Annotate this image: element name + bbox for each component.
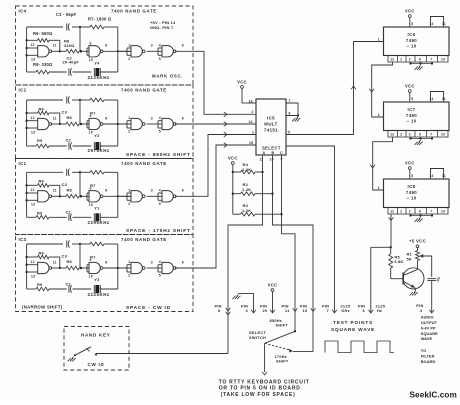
svg-text:12: 12: [31, 43, 35, 47]
svg-text:11: 11: [53, 44, 57, 48]
wire crystal to riser (IC2): [100, 145, 118, 147]
resistor R8 (IC3): [66, 266, 82, 270]
svg-text:10: 10: [89, 203, 93, 207]
wire IC6 pin12 to IC7 pin 1: [372, 62, 393, 117]
svg-text:6: 6: [182, 189, 184, 193]
svg-text:10: 10: [303, 308, 308, 313]
svg-text:SPACE - CW ID: SPACE - CW ID: [126, 305, 171, 311]
svg-text:14: 14: [249, 120, 253, 124]
NAND gate 4 pins 4,5-6 (IC4): [147, 43, 184, 61]
resistor R6 (IC1): [27, 184, 61, 198]
svg-text:13: 13: [31, 58, 35, 62]
svg-text:VCC: VCC: [268, 283, 278, 288]
svg-text:VCC: VCC: [405, 83, 415, 88]
svg-text:IC8: IC8: [408, 184, 416, 189]
wire select C from IC5 pin 9: [282, 155, 296, 331]
svg-text:7400 NAND GATE: 7400 NAND GATE: [121, 88, 167, 93]
wire IC5 pin 6 to test point PIN 7: [286, 146, 335, 313]
svg-text:KHz: KHz: [342, 308, 350, 313]
trimmer capacitor C2 (IC1): [69, 214, 72, 221]
svg-text:13: 13: [31, 274, 35, 278]
test point PIN 7 arrow: [332, 310, 337, 313]
svg-text:7490: 7490: [406, 190, 417, 195]
svg-text:2125KHz: 2125KHz: [88, 75, 110, 80]
svg-text:R8: R8: [67, 259, 73, 264]
svg-text:8: 8: [105, 260, 107, 264]
wire crystal to riser (IC3): [100, 288, 118, 290]
bottom pin row IC8: [388, 208, 448, 215]
dashed box HAND KEY: [64, 327, 129, 371]
capacitor C3 (IC2): [67, 96, 70, 103]
svg-text:6: 6: [182, 260, 184, 264]
svg-text:R9- 330Ω: R9- 330Ω: [33, 62, 53, 67]
bottom pin row IC7: [388, 131, 448, 138]
wire node80 riser (IC3): [79, 244, 81, 269]
svg-text:10: 10: [441, 58, 445, 62]
svg-text:R6- 560Ω: R6- 560Ω: [33, 31, 53, 36]
arrow down on IC7-IC8 wire: [370, 165, 375, 168]
svg-text:14: 14: [430, 174, 434, 178]
svg-text:2: 2: [128, 202, 130, 206]
svg-text:14: 14: [430, 22, 434, 26]
svg-text:IC4: IC4: [19, 9, 27, 14]
input bus wire (IC1): [25, 172, 27, 217]
svg-text:+5 VCC: +5 VCC: [409, 239, 426, 244]
capacitor C3 (IC4): [67, 23, 70, 30]
svg-text:8: 8: [105, 44, 107, 48]
wire 2125Hz from divider to test point PIN 6: [370, 247, 372, 313]
svg-text:3: 3: [151, 189, 153, 193]
switch common wire down with arrow: [264, 343, 266, 372]
svg-text:12: 12: [31, 260, 35, 264]
svg-text:11: 11: [442, 22, 446, 26]
resistor R8 (IC2): [66, 122, 82, 126]
feedback strap pins 14-11 IC7: [431, 92, 444, 103]
svg-text:11: 11: [442, 174, 446, 178]
svg-text:TO: TO: [421, 348, 426, 353]
wire feedback riser (IC2): [117, 100, 119, 146]
svg-text:10: 10: [89, 275, 93, 279]
wire IC1 output to IC5 pin 1: [175, 135, 256, 197]
svg-text:SPACE - 850Hz SHIFT: SPACE - 850Hz SHIFT: [126, 152, 191, 158]
svg-text:1: 1: [252, 130, 254, 134]
svg-text:10: 10: [441, 210, 445, 214]
wire IC2 output to IC5 pin 14: [175, 123, 256, 125]
svg-text:(TAKE LOW FOR SPACE): (TAKE LOW FOR SPACE): [221, 392, 296, 398]
svg-text:TEST POINTS: TEST POINTS: [333, 320, 373, 325]
square wave drawing: [325, 341, 394, 353]
svg-text:6.8K: 6.8K: [395, 260, 404, 264]
dashed section box IC4: [16, 6, 194, 85]
svg-text:IC3: IC3: [19, 237, 27, 242]
svg-text:7400 NAND GATE: 7400 NAND GATE: [121, 237, 167, 242]
svg-text:SQUARE WAVE: SQUARE WAVE: [331, 327, 375, 332]
svg-text:9: 9: [90, 114, 92, 118]
resistor R4 1.2K: [233, 171, 241, 173]
resistor R7 (IC3): [80, 242, 118, 246]
ground at hand key: [72, 357, 74, 359]
junction 850Hz contact: [294, 330, 296, 332]
op IC5 MULT 74151 box: [256, 99, 286, 155]
svg-text:6: 6: [182, 116, 184, 120]
svg-text:7490: 7490: [406, 113, 417, 118]
svg-text:8: 8: [105, 116, 107, 120]
svg-text:C: C: [280, 151, 283, 155]
svg-text:5: 5: [411, 22, 413, 26]
svg-text:11: 11: [53, 116, 57, 120]
svg-text:4: 4: [159, 188, 161, 192]
test point PIN 6 arrow: [368, 310, 373, 313]
resistor R8 (IC1): [66, 195, 82, 199]
wire into gate 2 (IC2): [81, 121, 89, 128]
wire top feedback path (IC2): [27, 99, 82, 101]
wire IC7 pin12 to IC8 pin 1: [373, 137, 393, 190]
svg-text:10: 10: [89, 58, 93, 62]
svg-text:20: 20: [263, 308, 268, 313]
svg-text:C3: C3: [62, 110, 68, 115]
arrow on IC2-IC5 wire: [224, 122, 227, 127]
svg-text:SHIFT: SHIFT: [276, 359, 289, 364]
wire node80 riser (IC2): [79, 100, 81, 125]
svg-text:1: 1: [378, 37, 380, 41]
resistor R7 (IC2): [80, 98, 118, 102]
trimmer capacitor C2 (IC3): [69, 285, 72, 292]
resistor R7 (IC4): [80, 25, 118, 29]
svg-text:OR TO PIN 5 ON ID BOARD: OR TO PIN 5 ON ID BOARD: [219, 386, 301, 392]
label .05 capacitor: [435, 276, 441, 283]
svg-text:IC1: IC1: [19, 161, 27, 166]
arrow down on IC8 output wire: [389, 217, 394, 220]
svg-text:1.2K: 1.2K: [242, 187, 251, 192]
wire crystal to riser (IC4): [100, 71, 118, 73]
trimmer capacitor C2 (IC4): [69, 68, 72, 75]
svg-text:7: 7: [430, 210, 432, 214]
test point PIN 20 arrow: [270, 310, 275, 313]
wire G1 out (IC2): [51, 123, 66, 125]
svg-text:12: 12: [31, 188, 35, 192]
svg-text:MARK OSC.: MARK OSC.: [152, 74, 183, 79]
svg-text:6: 6: [419, 58, 421, 62]
svg-text:20-40pF: 20-40pF: [63, 60, 80, 65]
svg-text:9: 9: [90, 42, 92, 46]
svg-text:3: 3: [151, 44, 153, 48]
svg-text:R9: R9: [37, 138, 43, 143]
wire into gate 2 (IC4): [81, 48, 89, 55]
svg-text:GND- PIN 7: GND- PIN 7: [150, 25, 174, 30]
svg-text:C2: C2: [66, 281, 72, 286]
bottom pin row IC6: [388, 56, 448, 63]
svg-text:12: 12: [31, 116, 35, 120]
NAND gate 3 pins 1,2-3 (IC3): [119, 260, 153, 278]
wire IC5 pin 7 to pin 8 and ground: [286, 103, 298, 116]
svg-text:5K: 5K: [407, 256, 412, 261]
test point PIN 9 arrow: [226, 308, 231, 311]
wire into gate 2 (IC1): [81, 193, 89, 200]
input bus wire (IC2): [25, 100, 27, 146]
svg-text:2: 2: [400, 133, 402, 137]
test point PIN 11 arrow: [293, 308, 298, 311]
svg-text:6: 6: [419, 133, 421, 137]
trimmer capacitor C2 (IC2): [69, 142, 72, 149]
svg-text:12: 12: [390, 58, 394, 62]
svg-text:1: 1: [128, 43, 130, 47]
ground feeding PIN 4: [237, 294, 239, 296]
coupling capacitor .05: [427, 278, 436, 280]
resistor R2 1.2K: [233, 193, 241, 195]
svg-text:10: 10: [89, 131, 93, 135]
svg-text:Y3: Y3: [94, 277, 100, 282]
wire node80 riser (IC4): [79, 27, 81, 52]
svg-text:SeekIC.com: SeekIC.com: [410, 391, 457, 400]
wire select A from IC5 pin 11: [228, 155, 263, 354]
svg-text:5: 5: [411, 97, 413, 101]
wire feedback riser (IC4): [117, 27, 119, 72]
wire R5 to transistor base: [391, 278, 404, 280]
dashed section box IC2: [16, 85, 194, 159]
wire G2 out (IC2): [104, 123, 131, 125]
svg-text:11: 11: [53, 189, 57, 193]
svg-text:3: 3: [409, 58, 411, 62]
svg-text:Y2: Y2: [94, 133, 100, 138]
svg-text:0-4V PP: 0-4V PP: [421, 325, 436, 330]
svg-text:7400 NAND GATE: 7400 NAND GATE: [111, 9, 157, 14]
crystal Y2 (IC2): [94, 142, 100, 150]
resistor R7 (IC1): [80, 171, 118, 175]
NAND gate 1 pins 12,13-11 (IC3): [27, 260, 57, 279]
svg-text:11: 11: [53, 260, 57, 264]
svg-text:MULT: MULT: [264, 122, 277, 127]
NAND gate 4 pins 4,5-6 (IC3): [147, 260, 184, 278]
svg-text:C2: C2: [66, 210, 72, 215]
wire select B from IC5 pin 10: [273, 155, 314, 352]
wire top feedback path (IC1): [27, 171, 82, 173]
svg-text:SWITCH: SWITCH: [249, 335, 266, 340]
svg-text:1: 1: [128, 116, 130, 120]
op IC8 7490 divide-by-10 box: [384, 179, 450, 208]
NAND gate 2 pins 9,10-8 (IC4): [89, 42, 108, 62]
resistor R3 1.2K: [233, 213, 241, 215]
wire feedback riser (IC3): [117, 244, 119, 289]
arrow up on IC5-IC6 wire: [351, 86, 356, 89]
svg-text:OUTPUT: OUTPUT: [421, 320, 438, 325]
svg-text:2295KHz: 2295KHz: [88, 220, 110, 225]
wire crystal to riser (IC1): [100, 216, 118, 218]
test point PIN 10 arrow: [311, 308, 316, 311]
svg-text:74151: 74151: [264, 128, 278, 133]
svg-text:VCC: VCC: [405, 160, 415, 165]
wire feedback riser (IC1): [117, 172, 119, 217]
svg-text:5: 5: [159, 57, 161, 61]
input bus wire (IC3): [25, 244, 27, 289]
wire node80 riser (IC1): [79, 172, 81, 197]
svg-text:B: B: [272, 151, 275, 155]
svg-text:VCC: VCC: [237, 79, 247, 84]
resistor R9 (IC4): [27, 70, 67, 74]
svg-text:7400 NAND GATE: 7400 NAND GATE: [121, 161, 167, 166]
svg-text:CW ID: CW ID: [88, 362, 105, 367]
feedback strap pins 14-11 IC6: [431, 17, 444, 28]
svg-text:4: 4: [159, 43, 161, 47]
svg-text:2975KHz: 2975KHz: [88, 148, 110, 153]
wire G2 out (IC1): [104, 195, 131, 197]
svg-text:1: 1: [378, 186, 380, 190]
svg-text:− 10: − 10: [406, 43, 416, 48]
svg-text:7490: 7490: [406, 38, 417, 43]
resistor R6 (IC3): [27, 255, 61, 269]
svg-text:3: 3: [409, 133, 411, 137]
svg-text:9: 9: [90, 258, 92, 262]
NAND gate 2 pins 9,10-8 (IC3): [89, 258, 108, 278]
NAND gate 1 pins 12,13-11 (IC4): [27, 43, 57, 62]
ground symbol IC6: [419, 65, 421, 67]
capacitor C3 (IC1): [67, 169, 70, 176]
svg-text:IC2: IC2: [19, 88, 27, 93]
grounded pins dots IC8: [409, 214, 411, 216]
switch open contact dashed to 170Hz: [265, 343, 291, 350]
NAND gate 3 pins 1,2-3 (IC1): [119, 188, 153, 206]
ground symbol IC8: [419, 217, 421, 219]
arrow down on IC6-IC7 wire: [369, 89, 374, 92]
svg-text:2225KHz: 2225KHz: [88, 292, 110, 297]
wire R1 wiper to coupling capacitor: [427, 256, 432, 277]
svg-text:14: 14: [430, 97, 434, 101]
svg-text:R6: R6: [39, 106, 45, 111]
svg-text:AUDIO: AUDIO: [421, 315, 434, 320]
wire 170Hz contact to select B line: [293, 351, 313, 353]
wire C2 to crystal (IC3): [73, 288, 92, 290]
svg-text:VCC: VCC: [228, 156, 238, 161]
svg-text:R9: R9: [37, 282, 43, 287]
NAND gate 1 pins 12,13-11 (IC1): [27, 188, 57, 207]
svg-text:R9: R9: [37, 211, 43, 216]
wire top feedback path (IC4): [27, 26, 82, 28]
wire G2 out (IC3): [104, 267, 131, 269]
svg-text:C3: C3: [62, 182, 68, 187]
arrow on IC3-IC5 wire: [224, 143, 227, 148]
svg-text:FILTER: FILTER: [421, 354, 435, 359]
svg-text:5: 5: [411, 174, 413, 178]
svg-text:(NARROW SHIFT): (NARROW SHIFT): [22, 305, 63, 310]
svg-text:R6: R6: [39, 250, 45, 255]
svg-text:7: 7: [430, 58, 432, 62]
feedback strap pins 14-11 IC8: [431, 169, 444, 180]
wire hand key to select A line: [96, 354, 228, 355]
svg-text:IC6: IC6: [408, 32, 416, 37]
svg-text:R8: R8: [67, 188, 73, 193]
resistor R9 (IC3): [27, 287, 67, 291]
crystal Y3 (IC3): [94, 285, 100, 293]
svg-text:− 10: − 10: [406, 118, 416, 123]
svg-text:2: 2: [400, 210, 402, 214]
resistor R6 (IC4): [27, 39, 61, 53]
wire C2 to crystal (IC4): [73, 71, 92, 73]
wire C2 to crystal (IC1): [73, 216, 92, 218]
svg-text:C3 - 56pF: C3 - 56pF: [56, 12, 77, 17]
NAND gate 2 pins 9,10-8 (IC1): [89, 187, 108, 207]
svg-text:7: 7: [327, 308, 329, 313]
wire into gate 2 (IC3): [81, 265, 89, 272]
arrow on IC4-IC5 wire: [224, 112, 227, 117]
dashed section box IC1: [16, 159, 194, 235]
svg-text:5: 5: [159, 202, 161, 206]
svg-text:− 10: − 10: [406, 195, 416, 200]
svg-text:11: 11: [442, 97, 446, 101]
wire IC4 output to IC5 pin 2: [175, 51, 256, 114]
input bus wire (IC4): [25, 27, 27, 72]
svg-text:11: 11: [285, 308, 290, 313]
wire G2 out (IC4): [104, 50, 131, 52]
svg-text:2: 2: [128, 57, 130, 61]
resistor R9 (IC1): [27, 216, 67, 220]
wire transistor collector: [417, 268, 419, 269]
svg-text:R7- 1800 Ω: R7- 1800 Ω: [88, 17, 112, 22]
NAND gate 1 pins 12,13-11 (IC2): [27, 116, 57, 135]
resistor R8 (IC4): [66, 50, 82, 54]
svg-text:3: 3: [409, 210, 411, 214]
resistor R5 6.8K: [390, 247, 392, 254]
svg-text:IC7: IC7: [408, 107, 416, 112]
svg-text:10: 10: [441, 133, 445, 137]
resistor R9 (IC2): [27, 144, 67, 148]
svg-text:R8: R8: [67, 115, 73, 120]
wire IC8 pin12 output 2125Hz: [390, 214, 392, 247]
svg-text:12: 12: [390, 210, 394, 214]
svg-text:8: 8: [289, 112, 291, 116]
svg-text:C2: C2: [66, 137, 72, 142]
wire G1 out (IC3): [51, 267, 66, 269]
svg-text:2: 2: [252, 110, 254, 114]
svg-text:4: 4: [159, 116, 161, 120]
svg-text:16: 16: [249, 100, 253, 104]
svg-text:6: 6: [182, 44, 184, 48]
arrow on IC1-IC5 wire: [224, 132, 227, 137]
wire C2 to crystal (IC2): [73, 145, 92, 147]
crystal Y4 (IC4): [94, 68, 100, 76]
wire IC3 output to IC5 pin 15: [175, 145, 256, 268]
svg-text:SHIFT: SHIFT: [276, 322, 289, 327]
svg-text:1: 1: [378, 113, 380, 117]
svg-text:9: 9: [90, 187, 92, 191]
svg-text:Y4: Y4: [94, 61, 100, 66]
wire transistor emitter to ground: [414, 288, 417, 291]
resistor R6 (IC2): [27, 111, 61, 125]
wire top feedback path (IC3): [27, 243, 82, 245]
wire G1 out (IC4): [51, 50, 66, 52]
grounded pins dots IC6: [409, 62, 411, 64]
svg-text:1: 1: [128, 260, 130, 264]
test point PIN 4 arrow: [251, 310, 256, 313]
ground symbol IC7: [419, 140, 421, 142]
svg-text:6: 6: [419, 210, 421, 214]
capacitor C3 (IC3): [67, 240, 70, 247]
svg-text:SQUARE: SQUARE: [421, 331, 438, 336]
NAND gate 2 pins 9,10-8 (IC2): [89, 114, 108, 134]
transistor Q1: [403, 268, 424, 289]
wire IC5 pin 5 output to IC6 input: [286, 42, 384, 135]
svg-text:2: 2: [128, 274, 130, 278]
grounded pins dots IC7: [409, 137, 411, 139]
svg-text:C3: C3: [62, 254, 68, 259]
svg-text:7: 7: [430, 133, 432, 137]
svg-text:VCC: VCC: [405, 8, 415, 13]
svg-text:R6: R6: [39, 179, 45, 184]
NAND gate 3 pins 1,2-3 (IC2): [119, 116, 153, 134]
wire G1 out (IC1): [51, 195, 66, 197]
svg-text:IC5: IC5: [267, 116, 275, 121]
svg-text:13: 13: [31, 130, 35, 134]
svg-text:4: 4: [159, 260, 161, 264]
op IC6 7490 divide-by-10 box: [384, 27, 450, 56]
